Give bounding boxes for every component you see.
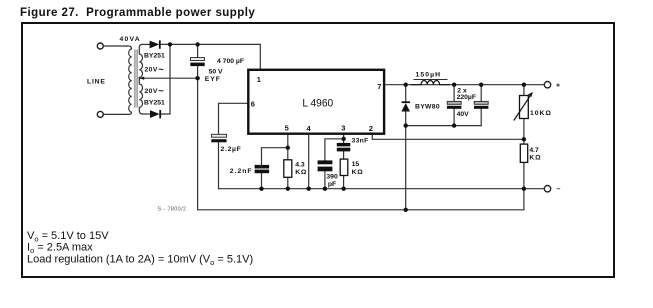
wire: signal ground rail [219,188,545,190]
wire: 220uF cap2 leads [480,85,482,102]
svg-text:KΩ: KΩ [352,169,364,176]
inductor L1 150uH [411,80,450,84]
svg-text:390: 390 [326,173,338,180]
node: BYW80 mid rail [404,123,408,127]
svg-text:10KΩ: 10KΩ [530,110,552,117]
node: 4700uF top [195,42,199,46]
diode D3 BYW80 [401,101,410,111]
transformer T1 secondary winding [139,44,142,114]
svg-text:2.2nF: 2.2nF [230,168,253,175]
wire: mid ground rail for output caps [406,125,482,127]
svg-text:KΩ: KΩ [295,169,307,176]
wire: 4700uF top lead [197,44,199,57]
svg-text:BY251: BY251 [144,100,165,107]
wire: pin 2 feedback line [372,134,524,139]
wire: 15K bottom lead [343,176,345,189]
svg-text:220µF: 220µF [457,94,476,101]
svg-text:Figure 27. Programmable power: Figure 27. Programmable power supply [20,7,255,19]
svg-text:2.2µF: 2.2µF [221,146,242,153]
node: pin5 tee [286,146,290,150]
terminal: output plus [544,82,550,88]
component value labels [87,36,552,188]
svg-text:50 V: 50 V [209,69,223,76]
node: 390pF ground [323,187,327,191]
svg-text:40V: 40V [457,111,470,118]
svg-text:EYF: EYF [205,76,221,83]
resistor R1 4.3K [284,160,292,178]
node: top rail riser junction [168,42,172,46]
wire: 2.2nF bottom lead [261,173,263,189]
wire: 390pF bottom lead [324,171,326,189]
node: 4700uF bottom / center tap [195,76,199,80]
wire: top rectified rail to pin 1 [161,44,260,69]
transformer core [134,50,136,108]
wire: BYW80 column [405,85,407,102]
svg-text:4.7: 4.7 [529,147,539,154]
wire: 4700uF bottom lead [197,66,199,78]
capacitor C7 220uF #2 [474,101,488,108]
node: pot top [522,83,526,87]
wire: pin 5 branch to 2.2nF [262,148,288,165]
svg-text:+: + [556,83,560,90]
wire: secondary bottom to diode [143,113,150,115]
node: BYW80 return [404,208,408,212]
svg-text:150µH: 150µH [416,72,442,79]
capacitor C2 2.2uF [211,134,226,142]
capacitor C3 2.2nF [255,165,270,173]
node: 4.3K ground [286,187,290,191]
wire: pin 5 column [287,134,289,160]
capacitor C5 33nF [337,143,351,152]
svg-text:BYW80: BYW80 [415,104,440,111]
caption text block [27,230,253,267]
node: BYW80 top [404,83,408,87]
wire: 2.2uF bottom lead [218,142,220,189]
svg-text:4.3: 4.3 [295,162,305,169]
diode D1 BY251 top [150,40,161,48]
wire: pin 6 lead to 2.2uF [219,103,249,134]
wire: pin 3 column to 33nF [343,134,345,143]
svg-text:6: 6 [251,100,255,109]
svg-text:7: 7 [377,82,381,91]
svg-text:LINE: LINE [87,79,106,86]
node: 2.2nF ground [259,187,263,191]
terminal: line top [97,43,103,49]
node: 4.7K bottom [522,187,526,191]
svg-text:pF: pF [328,181,336,188]
node: pin4 ground [307,187,311,191]
node: pin3 tee [341,137,345,141]
svg-text:S - 7800/2: S - 7800/2 [158,207,187,213]
svg-text:4 700 µF: 4 700 µF [217,58,244,65]
svg-text:Load regulation (1A to 2A) = 1: Load regulation (1A to 2A) = 10mV (Vo = … [27,253,253,267]
svg-text:1: 1 [257,75,261,84]
IC U1 L4960 [248,70,384,134]
capacitor C6 220uF #1 [447,101,461,108]
figure border frame [22,23,614,277]
wire: 0V downcomer and bottom return rail [198,78,524,210]
wire: line input bottom [103,113,122,115]
node: cap2 top [479,83,483,87]
svg-text:BY251: BY251 [144,53,165,60]
wire: 4.3K bottom lead [287,177,289,188]
node: cap1 bottom [452,123,456,127]
resistor R3 4.7K [520,144,527,162]
diode D2 BY251 bottom [150,110,161,118]
svg-text:15: 15 [352,161,360,168]
terminal: line bottom [97,111,103,117]
resistor R2 15K [340,159,348,175]
transformer T1 primary winding [123,46,132,114]
capacitor C1 4700uF electrolytic [190,58,204,67]
wire: bottom diode to riser [161,44,170,114]
svg-text:3: 3 [341,123,345,132]
transformer center tap arrow [140,77,144,80]
wire: output rail pin 7 [384,84,544,86]
svg-text:5: 5 [285,123,289,132]
wire: pin 3 branch to 390pF [325,139,344,161]
wire: 33nF to 15K [343,151,345,159]
node: feedback divider [522,137,526,141]
wire: potentiometer column [523,85,525,96]
potentiometer P1 10K [514,92,533,121]
svg-text:2: 2 [369,124,373,133]
node: 15K ground [341,187,345,191]
wire: center tap rail [139,77,197,79]
wire: 220uF cap1 leads [453,85,455,102]
terminal: output minus [544,186,550,192]
wire: line input top [103,45,126,47]
wire: 4.7K bottom lead [523,162,525,188]
svg-text:KΩ: KΩ [529,155,541,162]
wire: pin 4 column [308,134,310,189]
150uH label underline [414,78,448,80]
svg-text:–: – [557,186,561,193]
svg-text:40VA: 40VA [120,36,141,43]
capacitor C4 390pF [318,160,333,171]
svg-text:L 4960: L 4960 [302,98,333,110]
svg-text:33nF: 33nF [352,138,369,145]
node: cap1 top [452,83,456,87]
wire: secondary top to rectifier [143,43,150,45]
